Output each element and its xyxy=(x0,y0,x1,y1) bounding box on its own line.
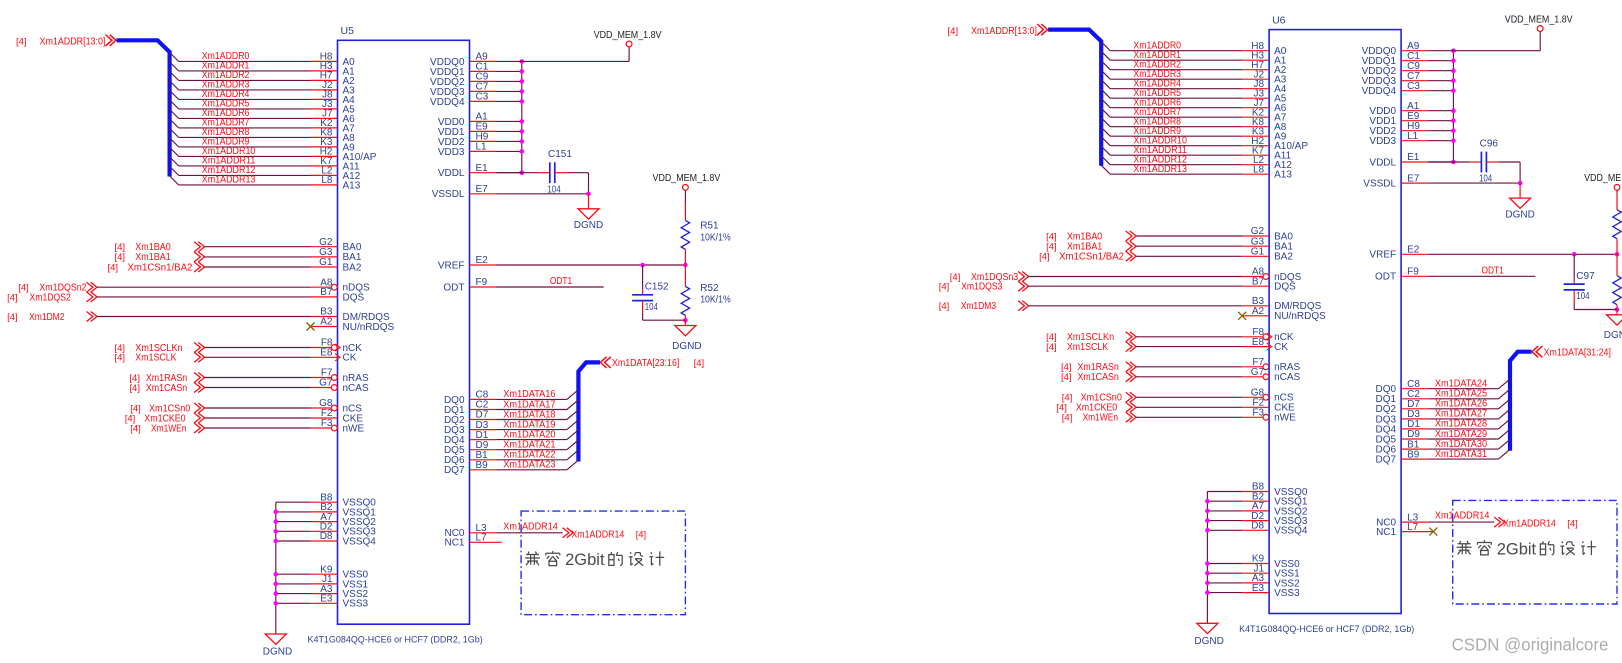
bus Xm1DATA[31:24] xyxy=(1510,352,1532,451)
wire power pin to column xyxy=(1428,140,1453,142)
junction on ground column xyxy=(274,529,279,534)
pin J2 A3 of U6 xyxy=(1242,69,1287,85)
wire power pin to column xyxy=(497,100,522,102)
junction on power column xyxy=(520,69,525,74)
pin G3 BA1 of U6 xyxy=(1242,236,1293,252)
svg-text:G1: G1 xyxy=(1251,247,1265,258)
off-page connector Xm1BA0 xyxy=(115,242,205,253)
junction on power column xyxy=(1451,68,1456,73)
pin B3 DM/RDQS of U5 xyxy=(311,307,391,323)
pin E3 VSS3 of U5 xyxy=(311,594,369,610)
wire VSS0 to ground column xyxy=(1207,563,1242,565)
pin F7 nRAS of U5 xyxy=(311,368,369,384)
svg-text:nWE: nWE xyxy=(1274,413,1296,424)
wire Xm1DATA30 xyxy=(1428,439,1510,449)
wire Xm1DATA24 xyxy=(1428,379,1510,389)
wire Xm1DATA28 xyxy=(1428,419,1510,429)
pin F8 nCK of U5 xyxy=(311,338,363,354)
wire VSSDL to ground xyxy=(497,193,589,195)
power symbol VDD_MEM_1.8V xyxy=(626,41,632,47)
pin H3 A1 of U6 xyxy=(1242,50,1287,66)
pin D8 VSSQ4 of U6 xyxy=(1242,521,1308,537)
pin L3 NC0 of U5 xyxy=(444,523,496,539)
pin L3 NC0 of U6 xyxy=(1376,512,1428,528)
off-page connector Xm1CSn1/BA2 xyxy=(108,262,205,273)
wire C152 to ground node xyxy=(643,301,686,321)
wire Xm1ADDR4 xyxy=(170,90,311,99)
svg-text:[4]: [4] xyxy=(18,283,29,294)
junction on power column xyxy=(1451,118,1456,123)
pin D9 DQ5 of U5 xyxy=(444,440,497,456)
wire power pin to column xyxy=(497,172,522,174)
no-connect X on pin L7 xyxy=(1429,528,1437,536)
wire power pin to column xyxy=(497,140,522,142)
note box (dash-dot) xyxy=(521,511,685,615)
wire Xm1ADDR1 xyxy=(170,62,311,71)
wire Xm1DATA20 xyxy=(497,430,579,440)
wire Xm1SCLK xyxy=(1136,346,1242,348)
wire VDD_MEM_1.8V distribution column xyxy=(1452,51,1454,162)
svg-text:VDD_MEM_1.8V: VDD_MEM_1.8V xyxy=(594,30,662,41)
wire Xm1ADDR13 xyxy=(170,176,311,185)
svg-text:DGND: DGND xyxy=(672,341,701,352)
svg-text:Xm1ADDR14: Xm1ADDR14 xyxy=(1435,511,1490,522)
wire ODT net xyxy=(497,286,604,288)
wire Xm1DM2 xyxy=(97,316,311,318)
wire Xm1CASn xyxy=(1136,376,1242,378)
wire Xm1DATA23 xyxy=(497,460,579,470)
pin E7 VSSDL of U5 xyxy=(432,184,497,200)
svg-text:G7: G7 xyxy=(1251,367,1265,378)
svg-text:BA2: BA2 xyxy=(1274,252,1293,263)
pin J3 A5 of U5 xyxy=(311,99,356,115)
wire power pin to column xyxy=(497,120,522,122)
junction VREF/divider xyxy=(1615,252,1620,257)
junction on power column xyxy=(520,129,525,134)
wire VREF to capacitor C97 xyxy=(1573,254,1575,284)
svg-text:Xm1ADDR14: Xm1ADDR14 xyxy=(503,521,558,532)
wire VSS ground column xyxy=(1206,492,1208,624)
wire Xm1CSn1/BA2 xyxy=(205,266,311,268)
wire power pin to column xyxy=(497,150,522,152)
junction on power column xyxy=(1451,108,1456,113)
wire C96 to ground xyxy=(1486,162,1520,183)
off-page connector Xm1BA0 xyxy=(1046,231,1136,242)
off-page connector Xm1CKE0 xyxy=(1056,402,1136,413)
svg-text:nWE: nWE xyxy=(343,423,365,434)
svg-text:L7: L7 xyxy=(1407,522,1419,533)
pin K2 A7 of U5 xyxy=(311,118,356,134)
pin H7 A2 of U5 xyxy=(311,71,356,87)
wire Xm1DATA18 xyxy=(497,410,579,420)
svg-text:[4]: [4] xyxy=(1046,342,1057,353)
svg-text:[4]: [4] xyxy=(939,301,950,312)
wire C151 to ground xyxy=(555,173,589,194)
wire Xm1ADDR3 xyxy=(1101,70,1242,79)
svg-text:Xm1WEn: Xm1WEn xyxy=(1083,413,1118,424)
pin L7 NC1 of U6 xyxy=(1376,522,1433,538)
wire VSS ground column xyxy=(275,502,277,634)
junction on power column xyxy=(520,89,525,94)
wire Xm1DATA16 xyxy=(497,390,579,400)
pin K8 A8 of U6 xyxy=(1242,117,1287,133)
svg-text:[4]: [4] xyxy=(636,529,647,540)
off-page connector Xm1WEn xyxy=(1062,412,1136,423)
svg-text:R52: R52 xyxy=(700,283,719,294)
pin B7 DQS of U6 xyxy=(1242,276,1296,292)
off-page connector Xm1CSn0 xyxy=(1062,392,1136,403)
wire Xm1ADDR11 xyxy=(1101,146,1242,155)
pin F3 nWE of U6 xyxy=(1242,408,1296,424)
pin E8 CK of U6 xyxy=(1242,337,1288,353)
svg-text:10K/1%: 10K/1% xyxy=(700,232,731,243)
junction VREF/divider xyxy=(683,263,688,268)
pin D7 DQ2 of U6 xyxy=(1376,399,1429,415)
junction on power column xyxy=(1451,48,1456,53)
wire Xm1DQSn2 xyxy=(97,286,311,288)
svg-text:L8: L8 xyxy=(1253,164,1265,175)
pin A3 VSS2 of U6 xyxy=(1242,573,1300,589)
svg-text:CK: CK xyxy=(1274,342,1288,353)
svg-text:[4]: [4] xyxy=(129,383,140,394)
power symbol VDD_MEM_1.8V (VREF divider) xyxy=(1614,185,1620,191)
junction on power column xyxy=(520,139,525,144)
pin B8 VSSQ0 of U5 xyxy=(311,492,377,508)
off-page connector Xm1DM3 xyxy=(939,301,1029,312)
svg-text:104: 104 xyxy=(1576,291,1590,302)
wire VREF to capacitor C152 xyxy=(642,265,644,295)
pin G3 BA1 of U5 xyxy=(311,247,362,263)
wire Xm1SCLKn xyxy=(205,347,311,349)
svg-text:C3: C3 xyxy=(476,92,489,103)
wire Xm1DATA17 xyxy=(497,400,579,410)
pin B1 DQ6 of U5 xyxy=(444,450,497,466)
svg-text:Xm1ADDR14: Xm1ADDR14 xyxy=(571,529,624,540)
resistor R52 (right) xyxy=(1613,276,1621,305)
svg-text:nCAS: nCAS xyxy=(343,383,369,394)
svg-text:NC1: NC1 xyxy=(1376,527,1396,538)
wire Xm1SCLKn xyxy=(1136,336,1242,338)
pin F2 CKE of U6 xyxy=(1242,398,1295,414)
off-page connector Xm1CASn xyxy=(129,383,204,394)
svg-text:VSS3: VSS3 xyxy=(343,599,369,610)
svg-text:ODT: ODT xyxy=(443,282,464,293)
pin K9 VSS0 of U5 xyxy=(311,564,369,580)
junction on power column xyxy=(520,170,525,175)
pin C8 DQ0 of U6 xyxy=(1376,379,1429,395)
off-page connector Xm1CSn1/BA2 xyxy=(1039,251,1136,262)
wire Xm1ADDR5 xyxy=(1101,89,1242,98)
pin B8 VSSQ0 of U6 xyxy=(1242,482,1308,498)
svg-text:F9: F9 xyxy=(476,277,488,288)
pin L8 A13 of U5 xyxy=(311,175,361,191)
power symbol VDD_MEM_1.8V xyxy=(1537,26,1543,32)
wire Xm1ADDR2 xyxy=(170,71,311,80)
svg-text:2Gbit: 2Gbit xyxy=(565,551,605,569)
svg-text:D8: D8 xyxy=(320,531,333,542)
svg-text:DGND: DGND xyxy=(1604,330,1622,341)
pin H9 VDD2 of U5 xyxy=(438,132,497,148)
svg-text:Xm1ADDR14: Xm1ADDR14 xyxy=(1503,519,1556,530)
pin G2 BA0 of U6 xyxy=(1242,226,1293,242)
svg-text:VSSDL: VSSDL xyxy=(1363,179,1396,190)
pin H8 A0 of U5 xyxy=(311,52,356,68)
pin E7 VSSDL of U6 xyxy=(1363,173,1428,189)
wire power pin to column xyxy=(1428,161,1453,163)
svg-text:Xm1CASn: Xm1CASn xyxy=(1078,372,1119,383)
pin C9 VDDQ2 of U5 xyxy=(430,72,496,88)
junction on ground column xyxy=(274,539,279,544)
ground DGND xyxy=(1510,183,1531,208)
junction on ground column xyxy=(274,510,279,515)
svg-text:[4]: [4] xyxy=(115,353,126,364)
svg-text:Xm1DATA[31:24]: Xm1DATA[31:24] xyxy=(1544,347,1612,358)
off-page connector Xm1SCLKn xyxy=(115,343,205,354)
svg-text:DGND: DGND xyxy=(574,220,603,231)
svg-text:[4]: [4] xyxy=(108,262,119,273)
wire Xm1BA1 xyxy=(205,256,311,258)
wire power pin to column xyxy=(1428,120,1453,122)
svg-text:E2: E2 xyxy=(1407,245,1420,256)
off-page connector Xm1SCLK xyxy=(1046,342,1136,353)
pin E2 VREF of U5 xyxy=(438,255,497,271)
off-page connector chevron Xm1DATA bus xyxy=(600,357,611,368)
pin C7 VDDQ3 of U6 xyxy=(1362,71,1428,87)
pin G1 BA2 of U5 xyxy=(311,257,362,273)
wire Xm1ADDR2 xyxy=(1101,61,1242,70)
pin J3 A5 of U6 xyxy=(1242,88,1287,104)
pin C9 VDDQ2 of U6 xyxy=(1362,61,1428,77)
wire Xm1ADDR7 xyxy=(170,119,311,128)
junction on ground column xyxy=(1205,528,1210,533)
svg-text:2Gbit: 2Gbit xyxy=(1497,540,1537,558)
wire power pin to column xyxy=(497,90,522,92)
wire Xm1SCLK xyxy=(205,356,311,358)
svg-text:E8: E8 xyxy=(1252,337,1265,348)
wire Xm1WEn xyxy=(1136,416,1242,418)
pin C1 VDDQ1 of U5 xyxy=(430,62,496,78)
junction on power column xyxy=(520,59,525,64)
svg-text:[4]: [4] xyxy=(948,26,959,37)
wire R52 to ground node xyxy=(684,315,686,320)
off-page connector Xm1CASn xyxy=(1061,372,1136,383)
svg-text:E7: E7 xyxy=(476,184,489,195)
svg-text:CSDN @originalcore: CSDN @originalcore xyxy=(1452,634,1609,654)
pin B9 DQ7 of U6 xyxy=(1376,449,1429,465)
wire Xm1DATA22 xyxy=(497,450,579,460)
svg-text:NC1: NC1 xyxy=(444,538,464,549)
wire Xm1DATA25 xyxy=(1428,389,1510,399)
junction on power column xyxy=(1451,58,1456,63)
svg-text:K4T1G084QQ-HCE6 or HCF7 (DDR2,: K4T1G084QQ-HCE6 or HCF7 (DDR2, 1Gb) xyxy=(1239,624,1414,634)
svg-text:10K/1%: 10K/1% xyxy=(700,294,731,305)
wire Xm1CSn1/BA2 xyxy=(1136,255,1242,257)
wire VSS2 to ground column xyxy=(1207,582,1242,584)
wire Xm1CSn0 xyxy=(205,407,311,409)
wire ODT net xyxy=(1428,275,1535,277)
svg-text:[4]: [4] xyxy=(950,272,961,283)
pin H2 A10/AP of U6 xyxy=(1242,136,1308,152)
svg-text:Xm1ADDR[13:0]: Xm1ADDR[13:0] xyxy=(40,37,106,48)
capacitor C96 xyxy=(1481,152,1486,173)
wire Xm1ADDR4 xyxy=(1101,80,1242,89)
wire power pin to column xyxy=(497,80,522,82)
pin K3 A9 of U6 xyxy=(1242,126,1287,142)
bus Xm1ADDR[13:0] xyxy=(1048,30,1101,166)
note text 兼容2Gbit的设计 xyxy=(525,552,540,566)
junction on power column xyxy=(1451,128,1456,133)
off-page connector chevron Xm1DATA bus xyxy=(1532,346,1543,357)
svg-text:DQS: DQS xyxy=(343,292,365,303)
svg-text:VDD3: VDD3 xyxy=(438,147,465,158)
pin E1 VDDL of U6 xyxy=(1369,152,1428,168)
wire power pin to column xyxy=(1428,130,1453,132)
pin L8 A13 of U6 xyxy=(1242,164,1292,180)
pin A2 NU/nRDQS of U6 xyxy=(1242,306,1326,322)
ground DGND (VREF divider) xyxy=(675,320,696,336)
pin H7 A2 of U6 xyxy=(1242,60,1287,76)
junction on power column xyxy=(1451,160,1456,165)
wire Xm1DQS3 xyxy=(1029,285,1243,287)
pin E8 CK of U5 xyxy=(311,348,357,364)
wire Xm1ADDR9 xyxy=(1101,127,1242,136)
pin G8 nCS of U5 xyxy=(311,398,363,414)
pin A2 NU/nRDQS of U5 xyxy=(311,317,395,333)
off-page connector Xm1RASn xyxy=(129,373,204,384)
wire power pin to column xyxy=(1428,60,1453,62)
svg-text:E3: E3 xyxy=(320,594,333,605)
junction on power column xyxy=(1451,88,1456,93)
pin D3 DQ3 of U5 xyxy=(444,420,497,436)
pin D1 DQ4 of U5 xyxy=(444,430,497,446)
pin A8 nDQS of U6 xyxy=(1242,267,1302,283)
note box (dash-dot) xyxy=(1453,500,1617,604)
svg-text:E8: E8 xyxy=(320,348,333,359)
power symbol VDD_MEM_1.8V (VREF divider) xyxy=(683,185,689,191)
svg-text:[4]: [4] xyxy=(1039,252,1050,263)
resistor R51 (right) xyxy=(1613,210,1621,239)
off-page connector Xm1CSn0 xyxy=(130,403,204,414)
wire VREF to R52 xyxy=(684,265,686,286)
junction on power column xyxy=(1451,138,1456,143)
pin A9 VDDQ0 of U6 xyxy=(1362,41,1428,57)
svg-text:F3: F3 xyxy=(321,418,333,429)
svg-text:Xm1CSn1/BA2: Xm1CSn1/BA2 xyxy=(1059,252,1124,263)
wire Xm1CSn0 xyxy=(1136,396,1242,398)
svg-text:A13: A13 xyxy=(1274,170,1292,181)
off-page connector Xm1DQS2 xyxy=(7,292,97,303)
svg-text:Xm1DATA23: Xm1DATA23 xyxy=(503,460,556,471)
off-page connector Xm1BA1 xyxy=(1046,241,1136,252)
wire Xm1ADDR14 xyxy=(497,532,563,534)
junction on power column xyxy=(520,79,525,84)
junction VREF/C branch xyxy=(1572,252,1577,257)
wire VSSQ4 to ground column xyxy=(1207,529,1242,531)
wire Xm1DATA21 xyxy=(497,440,579,450)
junction divider ground node xyxy=(683,318,688,323)
wire power pin to column xyxy=(1428,70,1453,72)
svg-text:VREF: VREF xyxy=(438,260,465,271)
wire VSS1 to ground column xyxy=(1207,572,1242,574)
pin C3 VDDQ4 of U5 xyxy=(430,92,496,108)
pin D8 VSSQ4 of U5 xyxy=(311,531,377,547)
svg-text:Xm1CASn: Xm1CASn xyxy=(146,383,187,394)
wire VSSDL to ground xyxy=(1428,182,1520,184)
svg-text:VSS3: VSS3 xyxy=(1274,588,1300,599)
pin A7 VSSQ2 of U6 xyxy=(1242,501,1308,517)
pin G7 nCAS of U5 xyxy=(311,378,369,394)
wire Xm1ADDR0 xyxy=(1101,42,1242,51)
wire Xm1ADDR12 xyxy=(1101,156,1242,165)
svg-text:VSSQ4: VSSQ4 xyxy=(343,536,377,547)
off-page connector chevron Xm1ADDR[13:0] xyxy=(1037,24,1048,35)
junction on power column xyxy=(520,149,525,154)
svg-text:[4]: [4] xyxy=(1567,519,1578,530)
bus Xm1DATA[23:16] xyxy=(578,362,600,461)
pin C3 VDDQ4 of U6 xyxy=(1362,81,1428,97)
wire R51 to VREF xyxy=(1616,239,1618,255)
pin G8 nCS of U6 xyxy=(1242,388,1294,404)
svg-text:E3: E3 xyxy=(1252,583,1265,594)
pin G2 BA0 of U5 xyxy=(311,237,362,253)
svg-text:ODT1: ODT1 xyxy=(550,276,572,287)
svg-text:VDDL: VDDL xyxy=(438,168,465,179)
wire power pin to column xyxy=(497,70,522,72)
svg-text:L1: L1 xyxy=(476,142,488,153)
svg-text:DGND: DGND xyxy=(263,647,292,658)
pin J8 A4 of U5 xyxy=(311,90,356,106)
pin K7 A11 of U6 xyxy=(1242,145,1291,161)
wire Xm1DQSn3 xyxy=(1029,276,1243,278)
pin A9 VDDQ0 of U5 xyxy=(430,52,496,68)
junction on power column xyxy=(520,119,525,124)
svg-text:DQS: DQS xyxy=(1274,282,1296,293)
svg-text:BA2: BA2 xyxy=(343,262,362,273)
wire power to R51 xyxy=(1616,190,1618,209)
svg-text:L7: L7 xyxy=(476,533,488,544)
svg-text:[4]: [4] xyxy=(7,292,18,303)
wire VSS1 to ground column xyxy=(276,583,311,585)
wire Xm1ADDR13 xyxy=(1101,165,1242,174)
pin J7 A6 of U5 xyxy=(311,109,356,125)
svg-text:D8: D8 xyxy=(1251,521,1264,532)
wire Xm1ADDR12 xyxy=(170,166,311,175)
wire VSSQ3 to ground column xyxy=(276,530,311,532)
svg-text:R51: R51 xyxy=(700,220,719,231)
wire Xm1WEn xyxy=(205,427,311,429)
svg-text:Xm1SCLK: Xm1SCLK xyxy=(1067,342,1109,353)
junction on ground column xyxy=(274,582,279,587)
svg-text:NU/nRDQS: NU/nRDQS xyxy=(343,322,395,333)
pin H8 A0 of U6 xyxy=(1242,41,1287,57)
junction on ground column xyxy=(274,601,279,606)
pin K8 A8 of U5 xyxy=(311,128,356,144)
pin C2 DQ1 of U5 xyxy=(444,400,497,416)
svg-text:Xm1SCLK: Xm1SCLK xyxy=(135,353,177,364)
pin D2 VSSQ3 of U6 xyxy=(1242,511,1308,527)
resistor R51 xyxy=(681,220,689,249)
pin E1 VDDL of U5 xyxy=(438,163,497,179)
junction VSSDL/ground xyxy=(1518,181,1523,186)
svg-text:E2: E2 xyxy=(476,255,489,266)
off-page connector Xm1ADDR14 xyxy=(1494,517,1578,530)
junction VREF/C branch xyxy=(640,263,645,268)
pin A8 nDQS of U5 xyxy=(311,277,371,293)
pin E9 VDD1 of U5 xyxy=(438,122,497,138)
ground DGND (VREF divider) xyxy=(1607,310,1622,326)
wire Xm1ADDR3 xyxy=(170,81,311,90)
svg-text:VDDQ4: VDDQ4 xyxy=(430,97,465,108)
